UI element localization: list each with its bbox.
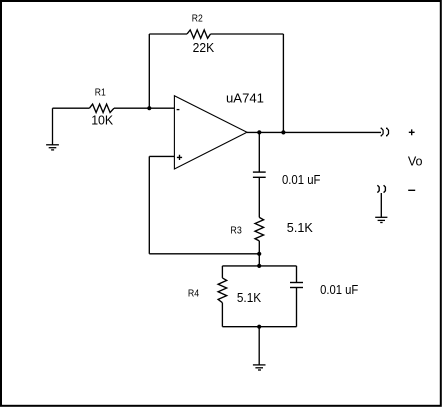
resistor R3 [255, 217, 264, 241]
capacitor C2 0.01 uF [290, 283, 303, 288]
node A feedback junction [257, 252, 261, 256]
wire lower terminal to ground [380, 193, 382, 217]
op-amp U1 uA741 [174, 96, 247, 169]
resistor R4 [218, 278, 227, 303]
terminal Vo- connector [377, 185, 385, 192]
node feedback R2 junction [281, 130, 285, 134]
wire parallel network bottom rail [222, 326, 296, 328]
wire output [247, 131, 381, 133]
label + (output positive) [409, 129, 415, 135]
svg-text:R3: R3 [230, 226, 242, 237]
ground (left, input) [46, 108, 59, 150]
wire R4 bottom lead [221, 303, 223, 327]
ground (bottom) [253, 365, 266, 370]
wire C2 bottom lead [296, 288, 298, 327]
wire C1 to R3 [258, 178, 260, 218]
wire C2 top lead [296, 266, 298, 282]
svg-text:5.1K: 5.1K [287, 221, 314, 235]
capacitor C1 0.01 uF [253, 172, 266, 177]
node output to capacitor [257, 130, 261, 134]
svg-text:R4: R4 [188, 289, 200, 300]
svg-text:0.01 uF: 0.01 uF [320, 283, 359, 297]
svg-text:R2: R2 [192, 14, 203, 25]
svg-text:22K: 22K [193, 41, 215, 55]
wire R3 to parallel network [258, 241, 260, 266]
wire input left segment [53, 107, 90, 109]
resistor R2 [187, 30, 211, 38]
wire right vertical (R2 to output node) [282, 34, 284, 132]
svg-text:0.01 uF: 0.01 uF [282, 173, 321, 187]
op-amp plus pin mark [177, 155, 182, 160]
wire ground stem [258, 327, 260, 365]
svg-text:uA741: uA741 [226, 92, 264, 106]
resistor R1 [89, 104, 114, 112]
ground (right, Vo-) [375, 217, 387, 222]
wire top horizontal right of R2 [211, 33, 284, 35]
svg-text:R1: R1 [95, 87, 106, 98]
node bottom rail junction [257, 325, 261, 329]
wire output node down to C1 [258, 132, 260, 171]
svg-text:5.1K: 5.1K [237, 291, 262, 305]
wire feedback bottom horizontal [149, 253, 259, 255]
wire top horizontal left of R2 [149, 33, 187, 35]
node inverting input junction [147, 106, 151, 110]
wire feedback left vertical [148, 156, 150, 253]
wire input right segment [114, 107, 174, 109]
op-amp minus pin mark [177, 109, 180, 111]
terminal Vo+ connector [381, 128, 388, 136]
label - (output negative) [408, 189, 415, 191]
node top rail junction [257, 264, 261, 268]
wire top-left vertical (node to R2) [148, 34, 150, 108]
wire R4 top lead [221, 266, 223, 278]
svg-text:10K: 10K [91, 114, 114, 128]
wire noninverting input [149, 155, 174, 157]
svg-text:Vo: Vo [408, 154, 423, 168]
wire parallel network top rail [222, 265, 296, 267]
